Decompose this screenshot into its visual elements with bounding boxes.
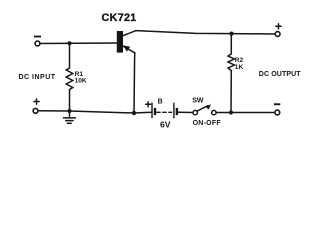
svg-text:SW: SW bbox=[192, 98, 204, 105]
terminal input positive bbox=[33, 108, 38, 113]
wire base (input top rail) bbox=[40, 42, 117, 45]
wire emitter junction to battery bbox=[134, 111, 151, 114]
wire bottom-left rail bbox=[38, 111, 134, 113]
plus sign battery bbox=[146, 102, 151, 107]
transistor Q1 CK721 bbox=[117, 31, 136, 53]
switch SW bbox=[193, 104, 216, 115]
node ground junction bbox=[67, 109, 71, 113]
svg-text:DC OUTPUT: DC OUTPUT bbox=[259, 71, 302, 78]
resistor R1 bbox=[66, 43, 73, 111]
svg-text:6V: 6V bbox=[160, 119, 171, 129]
terminal output positive bbox=[275, 32, 280, 37]
wire switch to output bbox=[216, 112, 275, 114]
plus sign input bbox=[34, 99, 39, 104]
wire top rail bbox=[136, 31, 275, 34]
plus sign output bbox=[276, 24, 281, 29]
terminal input negative bbox=[35, 41, 40, 46]
svg-text:DC INPUT: DC INPUT bbox=[19, 74, 56, 81]
minus sign input bbox=[34, 36, 41, 38]
node R1 top junction bbox=[68, 41, 72, 45]
svg-text:10K: 10K bbox=[75, 78, 87, 85]
ground bbox=[63, 111, 75, 123]
node R2 bottom junction bbox=[229, 110, 233, 114]
battery B bbox=[152, 103, 178, 118]
svg-text:ON-OFF: ON-OFF bbox=[193, 120, 222, 127]
wire emitter vertical bbox=[133, 53, 136, 113]
svg-text:CK721: CK721 bbox=[102, 12, 137, 24]
svg-text:1K: 1K bbox=[235, 64, 244, 71]
node emitter bottom junction bbox=[132, 111, 136, 115]
resistor R2 bbox=[228, 34, 234, 113]
minus sign output bbox=[274, 103, 280, 105]
svg-text:B: B bbox=[158, 98, 163, 105]
terminal output negative bbox=[275, 110, 280, 115]
wire battery to switch bbox=[178, 111, 193, 113]
node R2 top junction bbox=[229, 31, 233, 35]
